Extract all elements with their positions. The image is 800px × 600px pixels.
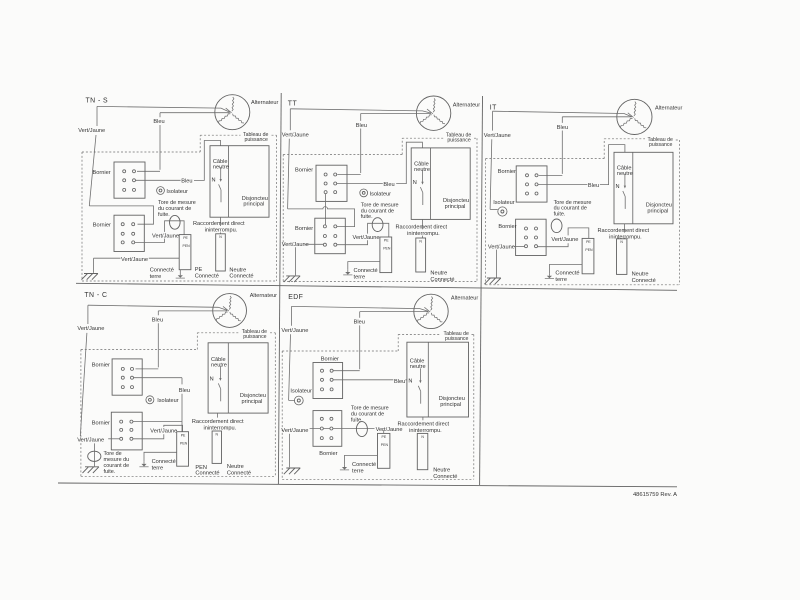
svg-text:N: N xyxy=(210,376,214,382)
svg-text:Isolateur: Isolateur xyxy=(370,192,392,198)
svg-text:Connecté: Connecté xyxy=(150,268,174,274)
svg-text:fuite.: fuite. xyxy=(554,211,566,217)
wire drop to earth (TT) xyxy=(295,247,297,275)
wire conductor through toroid (TN-S) xyxy=(135,221,184,243)
svg-text:Bleu: Bleu xyxy=(152,317,163,323)
terminal block Bornier lower (IT) xyxy=(516,219,547,255)
svg-text:Isolateur: Isolateur xyxy=(493,200,515,206)
frame bottom border xyxy=(58,483,677,487)
wire lead into insulator (IT) xyxy=(490,208,498,210)
neutral connection box N (IT) xyxy=(617,239,627,275)
svg-text:Isolateur: Isolateur xyxy=(166,189,188,195)
svg-text:terre: terre xyxy=(555,277,567,283)
svg-text:N: N xyxy=(413,180,417,186)
alternator star windings (TT) xyxy=(433,98,435,112)
wire phase from TN-S corner to alternator xyxy=(97,106,230,112)
terminal block Bornier upper (TN-S) xyxy=(114,162,145,198)
alternator circle (IT) xyxy=(617,99,652,134)
PE / PEN link box (EDF) xyxy=(378,433,390,468)
power panel box Tableau (TN-C) xyxy=(208,343,268,413)
earth ground symbol (TN-C) xyxy=(83,467,100,473)
svg-text:Bornier: Bornier xyxy=(92,363,110,369)
svg-text:Vert/Jaune: Vert/Jaune xyxy=(78,128,105,134)
wire neutral Bleu drop to upper Bornier (TN-C) xyxy=(136,311,159,369)
svg-text:N: N xyxy=(219,235,222,239)
svg-text:Bornier: Bornier xyxy=(321,357,339,363)
svg-text:Bleu: Bleu xyxy=(356,123,367,129)
terminal block Bornier lower (TT) xyxy=(315,218,346,254)
dashed boundary panel TN-C xyxy=(81,333,275,477)
neutral connection box N (TT) xyxy=(416,238,426,272)
svg-text:Neutre: Neutre xyxy=(227,464,244,470)
wire neutral to power panel (EDF) xyxy=(333,379,407,381)
wire green/yellow left riser (TN-C) xyxy=(80,305,88,436)
wire long green/yellow earth wire (TN-S) xyxy=(94,257,180,259)
svg-text:Bleu: Bleu xyxy=(394,379,405,385)
svg-text:TN - C: TN - C xyxy=(84,292,107,299)
earth-connection arrow (end of earth wire EDF) xyxy=(344,465,346,467)
wire neutral Bleu drop to upper Bornier (TN-S) xyxy=(137,113,160,172)
power panel box Tableau (TT) xyxy=(411,148,470,220)
wire stub panel to N box (TN-C) xyxy=(216,413,218,418)
PE / PEN link box (TN-C) xyxy=(177,432,189,467)
svg-text:puissance: puissance xyxy=(649,142,672,148)
svg-text:Vert/Jaune: Vert/Jaune xyxy=(282,242,309,248)
svg-text:Alternateur: Alternateur xyxy=(451,295,478,301)
svg-text:Connecté: Connecté xyxy=(632,278,656,284)
insulator symbol (IT) xyxy=(498,207,507,216)
terminal block Bornier lower (TN-S) xyxy=(114,215,144,251)
divider between Cable neutre and Disjoncteur (EDF) xyxy=(427,342,429,417)
svg-text:terre: terre xyxy=(152,466,164,472)
svg-text:PEN: PEN xyxy=(585,248,593,252)
svg-text:Raccordement direct: Raccordement direct xyxy=(598,228,650,234)
alternator star windings (EDF) xyxy=(431,297,433,311)
svg-text:principal: principal xyxy=(242,399,263,405)
alternator circle (TN-C) xyxy=(213,294,247,328)
PE / PEN link box (TT) xyxy=(380,237,392,273)
svg-text:Connecté: Connecté xyxy=(195,471,219,477)
wire neutral Bleu horizontal to alternator (TN-S) xyxy=(160,112,230,114)
divider between Cable neutre and Disjoncteur (IT) xyxy=(632,152,634,224)
wire neutral Bleu drop to upper Bornier (IT) xyxy=(539,117,563,176)
power panel box Tableau (IT) xyxy=(614,152,673,224)
wire neutral into power panel (TN-S) xyxy=(136,141,221,181)
wire stub panel to N box (TN-S) xyxy=(220,217,222,234)
alternator star windings (IT) xyxy=(634,102,636,116)
svg-text:terre: terre xyxy=(352,468,364,474)
wire earth wire from PE box (EDF) xyxy=(345,455,378,465)
svg-text:Vert/Jaune: Vert/Jaune xyxy=(77,438,104,444)
wire elbow with hop to lower Bornier top-right (TT) xyxy=(288,207,355,227)
switch contact (neutral) (TT) xyxy=(422,170,424,182)
wire earth wire from PE box (IT) xyxy=(549,265,582,274)
switch contact (neutral) (TN-S) xyxy=(220,167,222,179)
svg-text:Isolateur: Isolateur xyxy=(157,398,179,404)
svg-text:puissance: puissance xyxy=(447,138,470,144)
svg-text:Bornier: Bornier xyxy=(498,224,516,230)
wire interconnect between Borniers (TT) xyxy=(325,194,327,225)
svg-text:N: N xyxy=(212,177,216,183)
svg-text:PE: PE xyxy=(181,433,186,437)
PE / PEN link box (IT) xyxy=(582,238,594,273)
svg-text:PEN: PEN xyxy=(183,244,191,248)
svg-text:principal: principal xyxy=(243,202,264,208)
svg-text:Vert/Jaune: Vert/Jaune xyxy=(282,132,309,138)
svg-text:ininterrompu.: ininterrompu. xyxy=(609,234,642,240)
wire conductor through toroid (TT) xyxy=(337,223,389,244)
wire green/yellow left riser (TN-S) xyxy=(89,106,97,205)
frame row separator xyxy=(76,283,677,290)
svg-text:Connecté: Connecté xyxy=(352,462,376,468)
svg-text:fuite.: fuite. xyxy=(351,417,363,423)
svg-text:Bornier: Bornier xyxy=(93,223,111,229)
insulator symbol (TN-C) xyxy=(146,396,154,404)
svg-text:PE: PE xyxy=(183,236,188,240)
terminal block Bornier upper (TN-C) xyxy=(112,359,142,395)
svg-text:neutre: neutre xyxy=(414,167,430,173)
terminal block upper (EDF) xyxy=(313,363,343,399)
wire phase from TT corner to alternator xyxy=(290,109,431,113)
svg-text:principal: principal xyxy=(445,204,466,210)
neutral connection box N (TN-S) xyxy=(216,234,226,271)
svg-text:ininterrompu.: ininterrompu. xyxy=(205,228,238,234)
wire stub panel to N box (EDF) xyxy=(422,417,424,420)
svg-text:Vert/Jaune: Vert/Jaune xyxy=(77,326,104,332)
svg-text:EDF: EDF xyxy=(288,294,303,301)
leakage-current measuring toroid (TN-S) xyxy=(170,215,181,229)
frame separator between column 1 and 2 xyxy=(278,93,281,484)
wire link top-right to neutral drop (TN-C) xyxy=(133,420,182,422)
wire neutral Bleu horizontal to alternator (EDF) xyxy=(360,311,429,313)
insulator symbol (TT) xyxy=(360,189,368,197)
svg-text:Vert/Jaune: Vert/Jaune xyxy=(484,133,511,139)
divider between Cable neutre and Disjoncteur (TN-C) xyxy=(227,343,229,413)
wire drop to earth (IT) xyxy=(495,250,497,278)
wire green/yellow through toroid to PE box (EDF) xyxy=(333,429,384,434)
svg-text:Bornier: Bornier xyxy=(93,170,111,176)
svg-text:puissance: puissance xyxy=(245,137,268,143)
svg-text:Bleu: Bleu xyxy=(354,320,365,326)
svg-text:PEN: PEN xyxy=(180,441,188,445)
svg-text:Vert/Jaune: Vert/Jaune xyxy=(488,245,515,251)
svg-text:PE: PE xyxy=(586,240,591,244)
svg-text:neutre: neutre xyxy=(211,363,227,369)
svg-text:N: N xyxy=(419,239,422,243)
svg-text:N: N xyxy=(216,432,219,436)
svg-text:PE: PE xyxy=(195,267,203,273)
svg-text:Isolateur: Isolateur xyxy=(290,388,312,394)
svg-text:N: N xyxy=(408,379,412,385)
switch contact (neutral) (EDF) xyxy=(419,368,421,380)
wire earth wire from PE box (TT) xyxy=(348,262,380,270)
svg-text:fuite.: fuite. xyxy=(158,212,170,218)
svg-text:PEN: PEN xyxy=(383,247,391,251)
PE / PEN link box (TN-S) xyxy=(179,235,191,270)
wire elbow to lower Bornier top-right (TN-S) xyxy=(89,206,153,224)
svg-text:Connecté: Connecté xyxy=(227,471,251,477)
svg-text:Bleu: Bleu xyxy=(153,119,164,125)
wire drop to earth through toroid (TN-C) xyxy=(94,443,96,466)
svg-text:terre: terre xyxy=(150,274,162,280)
wire green/yellow into lower Bornier (IT) xyxy=(514,246,524,248)
divider between Cable neutre and Disjoncteur (TN-S) xyxy=(228,146,230,218)
wire phase from TN-C corner to alternator xyxy=(88,305,227,310)
svg-text:Bornier: Bornier xyxy=(295,168,313,174)
svg-text:puissance: puissance xyxy=(445,336,468,342)
wire earth wire from PEN box (TN-C) xyxy=(144,452,177,462)
svg-text:Bornier: Bornier xyxy=(295,226,313,232)
wire conductor to PE box (IT) xyxy=(538,228,589,247)
power panel box Tableau (EDF) xyxy=(407,342,469,417)
svg-text:fuite.: fuite. xyxy=(104,469,116,475)
terminal block Bornier lower (TN-C) xyxy=(111,412,142,450)
alternator circle (EDF) xyxy=(414,294,448,328)
earth-connection arrow (under PE/PEN box TN-S) xyxy=(179,270,181,276)
terminal block lower (EDF) xyxy=(313,411,342,447)
earth ground symbol (IT) xyxy=(484,278,501,284)
svg-text:TN - S: TN - S xyxy=(86,97,109,104)
dashed boundary panel EDF xyxy=(282,335,474,480)
wire neutral Bleu horizontal to alternator (TT) xyxy=(361,113,431,115)
svg-text:Bleu: Bleu xyxy=(383,182,394,188)
wire neutral into power panel (TT) xyxy=(337,142,423,183)
divider between Cable neutre and Disjoncteur (TT) xyxy=(429,148,431,220)
svg-text:IT: IT xyxy=(490,104,497,111)
svg-text:Connecté: Connecté xyxy=(229,274,253,280)
insulator symbol (EDF) xyxy=(294,396,303,405)
power panel box Tableau (TN-S) xyxy=(210,146,269,218)
svg-text:Neutre: Neutre xyxy=(229,267,246,273)
svg-text:Neutre: Neutre xyxy=(430,271,447,277)
earth-connection arrow (end of earth wire IT) xyxy=(548,273,550,275)
svg-text:Raccordement direct: Raccordement direct xyxy=(193,221,245,227)
earth-connection arrow (end of earth wire TT) xyxy=(347,270,349,272)
svg-text:Alternateur: Alternateur xyxy=(250,293,277,299)
wire stub panel to N box (IT) xyxy=(624,224,626,239)
svg-text:PE: PE xyxy=(384,239,389,243)
wire phase from EDF corner to alternator xyxy=(292,306,429,311)
svg-text:Alternateur: Alternateur xyxy=(655,105,682,111)
switch contact (neutral) (IT) xyxy=(624,174,626,186)
svg-text:Alternateur: Alternateur xyxy=(251,100,278,106)
svg-text:Connecté: Connecté xyxy=(152,459,176,465)
svg-text:Alternateur: Alternateur xyxy=(453,103,480,109)
alternator star windings (TN-S) xyxy=(232,97,234,111)
dashed boundary panel TT xyxy=(283,138,477,281)
wire neutral Bleu horizontal to alternator (TN-C) xyxy=(158,310,227,312)
svg-text:terre: terre xyxy=(354,275,366,281)
dashed boundary panel IT xyxy=(486,139,680,285)
svg-text:Neutre: Neutre xyxy=(632,271,649,277)
svg-text:Bleu: Bleu xyxy=(181,179,192,185)
terminal block Bornier upper (TT) xyxy=(316,165,347,201)
wire green/yellow into lower Bornier (TN-C) xyxy=(108,438,120,440)
wire neutral drop to PEN box (TN-C) xyxy=(134,378,183,432)
svg-text:Vert/Jaune: Vert/Jaune xyxy=(353,235,380,241)
svg-text:PE: PE xyxy=(382,435,387,439)
wire green/yellow left riser into insulator (EDF) xyxy=(289,306,295,400)
frame separator between column 2 and 3 xyxy=(480,96,483,485)
insulator symbol (TN-S) xyxy=(157,187,165,195)
svg-text:Bornier: Bornier xyxy=(319,451,337,457)
svg-text:Vert/Jaune: Vert/Jaune xyxy=(281,428,308,434)
svg-text:Vert/Jaune: Vert/Jaune xyxy=(150,428,177,434)
svg-text:principal: principal xyxy=(440,402,461,408)
wire phase from IT corner to alternator xyxy=(493,111,632,117)
svg-text:neutre: neutre xyxy=(410,364,426,370)
svg-text:N: N xyxy=(421,435,424,439)
wire green/yellow through lower Bornier (EDF) xyxy=(310,428,330,430)
svg-text:fuite.: fuite. xyxy=(361,214,373,220)
svg-text:puissance: puissance xyxy=(243,334,266,340)
svg-text:Raccordement direct: Raccordement direct xyxy=(398,421,450,427)
svg-text:ininterrompu.: ininterrompu. xyxy=(407,231,440,237)
terminal block Bornier upper (IT) xyxy=(516,166,547,202)
alternator circle (TT) xyxy=(416,96,450,130)
wire drop to earth (TN-S) xyxy=(93,258,95,273)
svg-text:Connecté: Connecté xyxy=(555,271,579,277)
svg-text:48615759 Rev. A: 48615759 Rev. A xyxy=(633,492,677,498)
svg-text:Vert/Jaune: Vert/Jaune xyxy=(551,237,578,243)
wire green/yellow left riser (TT) xyxy=(288,109,291,209)
svg-text:N: N xyxy=(620,240,623,244)
svg-text:Connecté: Connecté xyxy=(195,273,219,279)
svg-text:N: N xyxy=(616,184,620,190)
wire green/yellow left riser (IT) xyxy=(490,111,492,209)
wire green/yellow elbow to PEN box (TN-C) xyxy=(133,425,183,439)
svg-text:Neutre: Neutre xyxy=(433,468,450,474)
svg-text:PEN: PEN xyxy=(381,443,389,447)
svg-text:TT: TT xyxy=(288,101,298,108)
leakage-current measuring toroid (EDF) xyxy=(356,422,367,437)
leakage-current measuring toroid (TT) xyxy=(372,218,383,232)
svg-text:Bornier: Bornier xyxy=(498,169,516,175)
svg-text:Connecté: Connecté xyxy=(354,268,378,274)
wire neutral Bleu horizontal to alternator (IT) xyxy=(562,116,632,118)
svg-text:Bleu: Bleu xyxy=(179,388,190,394)
svg-text:Connecté: Connecté xyxy=(430,277,454,283)
svg-text:principal: principal xyxy=(647,208,668,214)
wire green/yellow into lower Bornier (TT) xyxy=(305,243,324,245)
wire stub panel to N box (TT) xyxy=(421,219,423,238)
svg-text:Bleu: Bleu xyxy=(588,183,599,189)
svg-text:Vert/Jaune: Vert/Jaune xyxy=(121,257,148,263)
dashed boundary panel TN-S xyxy=(82,135,277,281)
svg-text:Connecté: Connecté xyxy=(433,474,457,480)
svg-text:Bornier: Bornier xyxy=(92,420,110,426)
neutral connection box N (TN-C) xyxy=(212,431,221,463)
svg-text:Raccordement direct: Raccordement direct xyxy=(192,419,244,425)
wire neutral into power panel (IT) xyxy=(538,145,625,185)
switch contact (neutral) (TN-C) xyxy=(219,366,221,378)
svg-text:Vert/Jaune: Vert/Jaune xyxy=(281,328,308,334)
svg-text:Vert/Jaune: Vert/Jaune xyxy=(376,427,403,433)
svg-text:Vert/Jaune: Vert/Jaune xyxy=(152,234,179,240)
leakage-current measuring toroid (TN-C) xyxy=(88,451,101,461)
svg-text:Raccordement direct: Raccordement direct xyxy=(396,224,448,230)
wire neutral Bleu drop to upper Bornier (EDF) xyxy=(333,312,360,371)
svg-text:Bleu: Bleu xyxy=(557,125,568,131)
alternator circle (TN-S) xyxy=(215,95,250,130)
earth ground symbol (EDF) xyxy=(284,468,301,474)
neutral connection box N (EDF) xyxy=(417,433,428,469)
wire neutral Bleu drop to upper Bornier (TT) xyxy=(337,114,360,175)
alternator star windings (TN-C) xyxy=(229,296,231,310)
earth-connection arrow (end of earth wire TN-C) xyxy=(143,462,145,464)
earth ground symbol (TN-S) xyxy=(82,274,99,280)
wire drop to earth (EDF) xyxy=(288,434,290,468)
leakage-current measuring toroid (IT) xyxy=(551,219,562,233)
earth ground symbol (TT) xyxy=(284,276,301,282)
